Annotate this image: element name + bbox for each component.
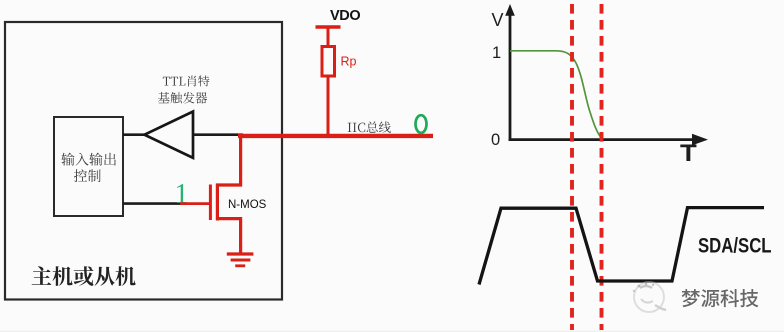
svg-text:SDA/SCL: SDA/SCL — [698, 235, 772, 258]
svg-text:N-MOS: N-MOS — [228, 199, 267, 211]
label 输入输出 (input/output) — [61, 153, 116, 166]
power rail bar — [316, 25, 341, 29]
svg-text:T: T — [680, 138, 697, 166]
dashed timing line 1 (red) — [570, 4, 574, 330]
graph T axis (horizontal, arrow right) — [509, 134, 708, 146]
watermark text 梦源科技 — [682, 289, 759, 307]
transistor Q1 N-MOS: gate bar — [209, 185, 212, 221]
node: logic 0 on bus (green) — [416, 115, 427, 133]
wire: rail to resistor — [327, 27, 330, 47]
svg-text:Rp: Rp — [341, 55, 357, 69]
label IIC总线 (IIC bus) — [348, 121, 391, 133]
svg-text:V: V — [492, 10, 504, 30]
resistor Rp (pull-up) — [322, 47, 335, 77]
watermark logo circle — [633, 282, 666, 312]
falling-edge curve (green) — [510, 51, 602, 139]
bottom edge shading — [0, 331, 784, 332]
wire: gate wire red segment — [180, 202, 209, 205]
transistor Q1 N-MOS: source lead — [216, 219, 241, 254]
label TTL肖特 (TTL Schottky, line 1) — [163, 75, 210, 86]
svg-text:1: 1 — [492, 44, 501, 62]
ground symbol (red) — [227, 254, 254, 266]
wire: buffer output to I/O control box — [123, 133, 146, 136]
SDA/SCL waveform (black trapezoid wave) — [479, 208, 764, 285]
outer box: host/slave device enclosure — [5, 22, 282, 300]
inner box: I/O control block — [54, 117, 123, 216]
graph V axis (vertical, arrow up) — [505, 4, 515, 141]
label 基触发器 (trigger, line 2) — [158, 92, 207, 104]
label 控制 (control) — [74, 169, 101, 182]
dashed timing line 2 (red) — [600, 4, 604, 330]
wire: buffer input from bus (black segment) — [193, 133, 243, 136]
wire: IIC bus line (thick red) — [238, 134, 433, 138]
transistor Q1 N-MOS: drain lead — [216, 136, 241, 185]
transistor Q1 N-MOS: channel bar — [216, 184, 219, 221]
svg-text:1: 1 — [175, 179, 189, 210]
label 主机或从机 (master or slave) — [32, 266, 136, 286]
svg-text:VDO: VDO — [330, 8, 360, 24]
svg-text:0: 0 — [491, 131, 500, 149]
op-amp style buffer U1 (input buffer triangle, points left) — [145, 112, 194, 158]
wire: I/O control to NMOS gate (black segment) — [123, 202, 182, 205]
wire: resistor to bus — [327, 76, 330, 137]
